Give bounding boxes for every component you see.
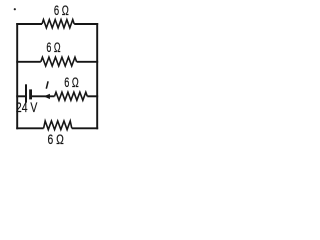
battery B1 24V short plate (29, 89, 32, 99)
wire right edge (96, 23, 98, 129)
resistor R2 6Ω (second branch) (41, 57, 77, 66)
svg-text:6 Ω: 6 Ω (64, 75, 79, 90)
wire rail2 right segment (77, 61, 99, 63)
current label I (italic) (46, 81, 48, 88)
wire rail3 right segment (87, 95, 98, 97)
wire bottom rail left segment (16, 127, 43, 129)
resistor R4 6Ω (bottom) (44, 121, 72, 130)
svg-text:6 Ω: 6 Ω (48, 132, 64, 147)
wire bottom rail right segment (72, 127, 98, 129)
current arrow (pointing left) (44, 94, 50, 99)
battery B1 24V long plate (25, 84, 27, 102)
wire left edge (16, 23, 18, 129)
wire top rail left segment (16, 23, 42, 25)
svg-text:6 Ω: 6 Ω (54, 3, 69, 18)
wire rail2 left segment (16, 61, 41, 63)
stray dot (caption period) (14, 8, 16, 10)
wire top rail right segment (74, 23, 98, 25)
svg-text:24 V: 24 V (16, 100, 38, 115)
resistor R3 6Ω (battery branch) (55, 92, 88, 100)
wire rail3: battery to resistor R3 (32, 95, 55, 97)
svg-text:6 Ω: 6 Ω (46, 40, 60, 55)
resistor R1 6Ω (top) (42, 20, 74, 28)
wire rail3: left edge to battery (16, 95, 25, 97)
